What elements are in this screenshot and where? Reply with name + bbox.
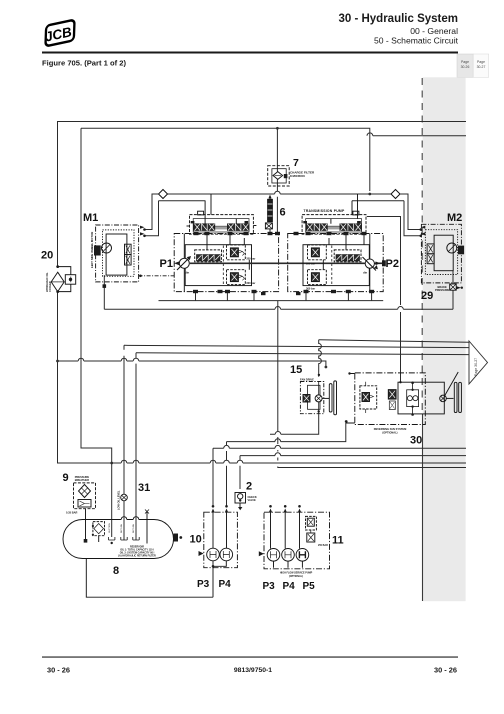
main pressure line xyxy=(190,262,383,264)
rev fan blades xyxy=(454,382,457,412)
wire y200.8 cross line xyxy=(159,200,405,202)
pump group P1 xyxy=(160,194,386,292)
rev valve A xyxy=(360,386,377,409)
wire diamond2 to M2 port A xyxy=(400,194,421,230)
svg-text:30-27: 30-27 xyxy=(477,65,486,69)
svg-text:29: 29 xyxy=(421,290,433,302)
wire tank riser x136 xyxy=(135,353,137,540)
svg-text:7: 7 xyxy=(293,157,299,169)
pump box 10 xyxy=(190,505,238,597)
wire P4 drop xyxy=(226,442,228,506)
suction arrow left xyxy=(259,551,264,556)
level rod xyxy=(146,512,148,544)
svg-text:11: 11 xyxy=(332,535,344,547)
wire bottom bundle line A xyxy=(227,423,346,442)
rev shuttle valve block xyxy=(407,390,419,407)
tank bottom loop xyxy=(86,558,213,597)
pump box 11 xyxy=(259,505,344,592)
svg-text:P2: P2 xyxy=(386,258,399,270)
oil cooler 20 xyxy=(41,250,76,294)
P2 solenoid row xyxy=(334,250,361,262)
JCB logo xyxy=(41,20,78,47)
brake transducer 29 xyxy=(421,284,463,302)
svg-text:31: 31 xyxy=(138,482,150,494)
motor M2 valve xyxy=(427,244,434,254)
rev valve B xyxy=(388,390,396,400)
svg-text:P3: P3 xyxy=(263,581,276,592)
M1 drain dash line xyxy=(139,275,175,277)
component 6 gauge xyxy=(265,195,285,234)
wire bottom bundle line D xyxy=(205,462,466,464)
breather 9 xyxy=(63,472,96,543)
svg-text:P3: P3 xyxy=(197,579,210,590)
tank 8 xyxy=(63,510,213,598)
svg-text:250 BAR: 250 BAR xyxy=(318,544,328,547)
svg-text:2: 2 xyxy=(246,481,252,493)
wire mid bus line 3 xyxy=(58,361,326,367)
rev fan motor xyxy=(440,395,447,402)
P2 relief valve 1 xyxy=(308,245,327,260)
svg-text:(OPTIONAL): (OPTIONAL) xyxy=(289,575,303,578)
svg-text:COOLER: COOLER xyxy=(49,281,52,292)
fan15 blades xyxy=(322,397,329,399)
wire M2 port B feed xyxy=(404,201,421,236)
wire top right y135.8 xyxy=(367,133,466,136)
page tab 30-26 xyxy=(457,54,473,77)
wire P2-to-reversing-fan drop xyxy=(367,217,401,383)
svg-text:din: din xyxy=(185,271,189,275)
svg-text:9: 9 xyxy=(63,472,69,484)
M2 port arrows xyxy=(421,226,426,236)
wire pump groups common bottom y300.6 xyxy=(159,300,384,302)
wire hop y463 over x124 xyxy=(121,460,127,463)
svg-text:SUCTION: SUCTION xyxy=(109,523,111,533)
wire M1 return drop xyxy=(103,275,105,309)
svg-text:350 bar: 350 bar xyxy=(306,262,315,266)
fan15 motor xyxy=(318,382,320,415)
stub arrows into box xyxy=(212,505,215,508)
wire outer loop left lower xyxy=(58,292,206,463)
P1 inner verticals xyxy=(184,234,249,292)
svg-text:6: 6 xyxy=(280,207,286,219)
wire tank riser x124 xyxy=(123,345,125,540)
svg-text:350 bar: 350 bar xyxy=(246,257,255,261)
rev fan feed diagonal xyxy=(445,372,459,396)
node dot x371 on y194 xyxy=(368,193,371,196)
P1 relief valve 2 xyxy=(227,270,246,285)
svg-text:LOW OIL LEVEL: LOW OIL LEVEL xyxy=(118,490,121,510)
svg-text:300 bar: 300 bar xyxy=(246,281,255,285)
svg-text:30: 30 xyxy=(410,435,422,447)
fan15 relief xyxy=(303,395,310,403)
stubs xyxy=(269,505,272,508)
svg-text:M2: M2 xyxy=(447,212,462,224)
page fold grey band xyxy=(423,77,466,601)
wire hop y463 over x136 xyxy=(133,460,139,463)
svg-text:30-26: 30-26 xyxy=(461,65,470,69)
pump P1 circle xyxy=(179,258,189,268)
pump P3 circle xyxy=(207,548,220,561)
header rule xyxy=(42,52,458,54)
page 30-27 arrow xyxy=(469,341,488,384)
svg-text:50 - Schematic Circuit: 50 - Schematic Circuit xyxy=(374,36,459,46)
svg-text:15: 15 xyxy=(290,364,302,376)
svg-text:RETURN: RETURN xyxy=(133,523,135,533)
motor M1 group xyxy=(83,212,174,282)
svg-text:din: din xyxy=(363,271,367,275)
svg-text:Page 30-27: Page 30-27 xyxy=(474,358,478,376)
P2 valve risers xyxy=(331,194,358,224)
reversing fan system 30 xyxy=(345,372,462,447)
P1 relief valve 1 xyxy=(227,245,246,260)
wire bottom bundle line C xyxy=(240,453,466,456)
relief over P5 xyxy=(306,516,317,530)
svg-text:P4: P4 xyxy=(283,581,296,592)
check valve 2 xyxy=(235,481,257,511)
fan drive 15 xyxy=(290,364,337,415)
port marks pump tops xyxy=(193,232,374,295)
node diamond right xyxy=(391,190,400,199)
wire fan15 feed drop (hops over bus lines) xyxy=(319,340,322,377)
svg-text:Page: Page xyxy=(477,60,485,64)
svg-text:30 - 26: 30 - 26 xyxy=(434,666,457,675)
charge filter 7 diamond xyxy=(273,172,283,180)
pump P3b circle xyxy=(267,549,280,562)
low oil level switch xyxy=(118,490,128,510)
svg-text:RETURN: RETURN xyxy=(121,523,123,533)
svg-text:(A) HYDRAULIC RETURN FILTER: (A) HYDRAULIC RETURN FILTER xyxy=(118,555,156,558)
P1 solenoid row xyxy=(195,250,222,262)
svg-text:8: 8 xyxy=(113,565,119,577)
node fan return port dot xyxy=(325,366,328,369)
wire fan feed line xyxy=(319,340,469,343)
svg-text:TRANSMISSION PUMP: TRANSMISSION PUMP xyxy=(304,209,345,213)
wire mid bus line 2 xyxy=(136,353,469,355)
wire pressure line y194 diamond to diamond xyxy=(168,191,392,194)
svg-text:Page: Page xyxy=(461,60,469,64)
wire M1-M2 return line y309 xyxy=(104,307,453,310)
wire check valve drop xyxy=(239,456,241,489)
wire fan15 return xyxy=(270,414,319,434)
svg-text:8 MICRON: 8 MICRON xyxy=(290,174,305,178)
strainer marks xyxy=(109,537,140,540)
P1 valve risers xyxy=(205,194,236,224)
pump P4b circle xyxy=(282,549,295,562)
svg-text:9813/9750-1: 9813/9750-1 xyxy=(234,667,272,674)
node diamond left xyxy=(159,190,168,199)
P1 valve assembly xyxy=(190,215,254,235)
wire M1 port B feed xyxy=(145,201,159,236)
fold dashed line xyxy=(421,78,423,414)
svg-text:VALVE: VALVE xyxy=(248,498,257,502)
charge filter 7 box xyxy=(268,166,290,186)
svg-text:10: 10 xyxy=(190,534,202,546)
wire bottom bundle line B xyxy=(213,445,466,448)
svg-text:M1: M1 xyxy=(83,212,98,224)
svg-text:0.35 BAR: 0.35 BAR xyxy=(66,511,78,515)
tank suction filter xyxy=(93,522,105,536)
svg-text:BREATHER: BREATHER xyxy=(75,478,89,482)
pump group P2 xyxy=(288,194,399,292)
motor M1 circle xyxy=(102,243,112,253)
svg-text:30 - 26: 30 - 26 xyxy=(47,666,70,675)
wire pump bottom stubs xyxy=(196,292,372,301)
pump P5 circle xyxy=(296,549,309,562)
M1 port arrows xyxy=(140,226,145,236)
node junction tank drop xyxy=(110,462,113,465)
wire charge filter drop xyxy=(276,128,278,233)
suction arrow left xyxy=(199,551,204,556)
P2 relief valve 2 xyxy=(308,270,327,285)
pump P2 circle xyxy=(365,259,374,268)
motor M1 valve xyxy=(125,244,132,254)
wire M2 return drop xyxy=(452,271,454,310)
motor M2 circle xyxy=(447,243,457,253)
svg-text:P5: P5 xyxy=(303,581,316,592)
pump P4 circle xyxy=(220,548,233,561)
svg-text:00 - General: 00 - General xyxy=(410,26,458,36)
wire diamond1 to M1 port A xyxy=(145,194,159,230)
P2 valve assembly xyxy=(302,215,366,235)
svg-text:PRESSURE: PRESSURE xyxy=(435,288,450,292)
svg-text:20: 20 xyxy=(41,250,53,262)
motor M2 group xyxy=(420,212,465,283)
wire inner loop xyxy=(81,128,370,191)
wire center drain drop xyxy=(278,301,466,468)
wire mid bus line 1 xyxy=(124,345,469,347)
svg-text:LEFT SIDE WHEEL MOTOR: LEFT SIDE WHEEL MOTOR xyxy=(90,232,94,268)
svg-text:P4: P4 xyxy=(219,579,232,590)
wire P3 drop xyxy=(212,448,214,505)
svg-text:Figure 705. (Part 1 of 2): Figure 705. (Part 1 of 2) xyxy=(42,59,126,68)
page tab 30-27 xyxy=(473,54,489,77)
svg-text:(OPTIONAL): (OPTIONAL) xyxy=(382,430,397,434)
svg-text:300 bar: 300 bar xyxy=(306,286,315,290)
P2 inner verticals xyxy=(323,234,370,292)
svg-text:30 - Hydraulic System: 30 - Hydraulic System xyxy=(338,13,458,25)
wire outer loop top xyxy=(58,122,467,267)
node junction outer-left bus xyxy=(56,360,59,363)
svg-text:P1: P1 xyxy=(160,258,173,270)
